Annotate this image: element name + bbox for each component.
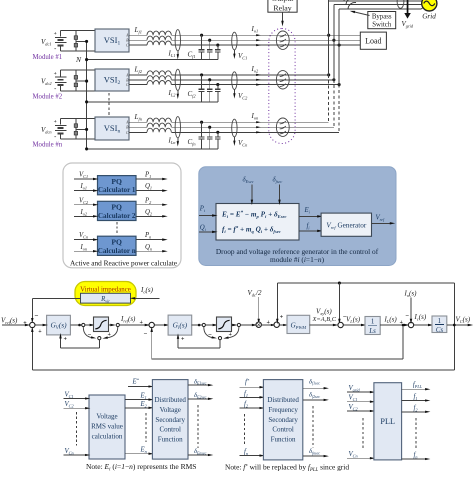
svg-text:Active and Reactive power calc: Active and Reactive power calculate [70, 258, 177, 267]
svg-text:-: - [54, 134, 56, 141]
svg-text:Note: Ei (i=1−n) represents th: Note: Ei (i=1−n) represents the RMS [86, 462, 196, 472]
svg-text:Io(s): Io(s) [404, 290, 418, 299]
svg-text:Gi(s): Gi(s) [173, 321, 188, 332]
svg-text:+: + [54, 31, 57, 37]
svg-text:Ic(s): Ic(s) [414, 313, 427, 322]
svg-text:Control: Control [272, 426, 293, 434]
svg-text:+: + [64, 337, 68, 343]
svg-text:Function: Function [158, 436, 183, 444]
svg-text:Control: Control [160, 426, 181, 434]
svg-text:Calculator 1: Calculator 1 [98, 186, 136, 194]
svg-text:Ls: Ls [368, 327, 376, 335]
svg-text:+: + [140, 320, 144, 326]
svg-text:+: + [54, 71, 57, 77]
svg-text:Calculator 2: Calculator 2 [98, 212, 136, 220]
svg-text:1: 1 [371, 318, 375, 326]
svg-text:Voltage: Voltage [96, 413, 117, 421]
svg-text:Vxy(s): Vxy(s) [316, 308, 332, 317]
svg-text:+: + [38, 329, 42, 335]
svg-text:Relay: Relay [273, 4, 291, 13]
svg-text:PQ: PQ [111, 238, 122, 247]
svg-text:+: + [280, 314, 284, 320]
svg-text:-: - [54, 46, 56, 53]
svg-text:Load: Load [365, 37, 381, 46]
svg-text:−: − [88, 332, 92, 339]
svg-text:+: + [54, 119, 57, 125]
svg-text:-: - [54, 85, 56, 92]
svg-text:Cs: Cs [436, 326, 444, 334]
svg-text:calculation: calculation [92, 433, 123, 441]
svg-text:PLL: PLL [380, 417, 395, 426]
svg-text:+: + [181, 337, 185, 343]
svg-text:Voltage: Voltage [160, 406, 181, 414]
svg-text:PQ: PQ [111, 177, 122, 186]
svg-text:VC(s): VC(s) [456, 316, 471, 325]
svg-text:N: N [75, 55, 82, 64]
svg-text:Module #2: Module #2 [33, 94, 63, 101]
svg-text:1: 1 [438, 317, 442, 325]
svg-text:Note: f* will be replaced by f: Note: f* will be replaced by fPLL since … [225, 463, 349, 473]
svg-text:−: − [208, 332, 212, 339]
svg-text:VL(s): VL(s) [346, 316, 361, 325]
svg-text:Calculator n: Calculator n [98, 247, 136, 255]
svg-text:Vref(s): Vref(s) [1, 317, 18, 326]
svg-text:Io(s): Io(s) [140, 286, 154, 295]
svg-text:Frequency: Frequency [268, 406, 298, 414]
svg-text:PQ: PQ [111, 203, 122, 212]
svg-text:−: − [144, 331, 148, 338]
svg-text:Module #1: Module #1 [33, 54, 63, 61]
svg-text:+: + [108, 332, 112, 338]
svg-text:Switch: Switch [372, 21, 391, 28]
svg-text:module #i (i=1−n): module #i (i=1−n) [270, 255, 325, 264]
svg-text:Function: Function [271, 436, 296, 444]
svg-text:−: − [35, 312, 39, 320]
svg-text:GV(s): GV(s) [50, 321, 67, 332]
svg-text:Distributed: Distributed [267, 396, 299, 404]
svg-text:X=A,B,C: X=A,B,C [312, 316, 337, 323]
svg-text:Bypass: Bypass [372, 14, 392, 21]
svg-text:Iref(s): Iref(s) [120, 315, 136, 324]
svg-text:Secondary: Secondary [268, 416, 298, 424]
svg-text:Virtual impedance: Virtual impedance [80, 287, 131, 294]
svg-text:+: + [229, 332, 233, 338]
svg-text:−: − [405, 313, 409, 320]
svg-text:Grid: Grid [422, 12, 436, 20]
svg-text:fi = f* + mq Qi + δfsec: fi = f* + mq Qi + δfsec [222, 226, 281, 235]
svg-text:IL(s): IL(s) [384, 316, 398, 325]
svg-text:Ei = E* − mp Pi + δEsec: Ei = E* − mp Pi + δEsec [221, 210, 287, 219]
svg-text:RMS value: RMS value [91, 423, 123, 431]
svg-text:Secondary: Secondary [155, 416, 185, 424]
svg-text:Module #n: Module #n [33, 142, 63, 149]
svg-text:Distributed: Distributed [154, 396, 186, 404]
